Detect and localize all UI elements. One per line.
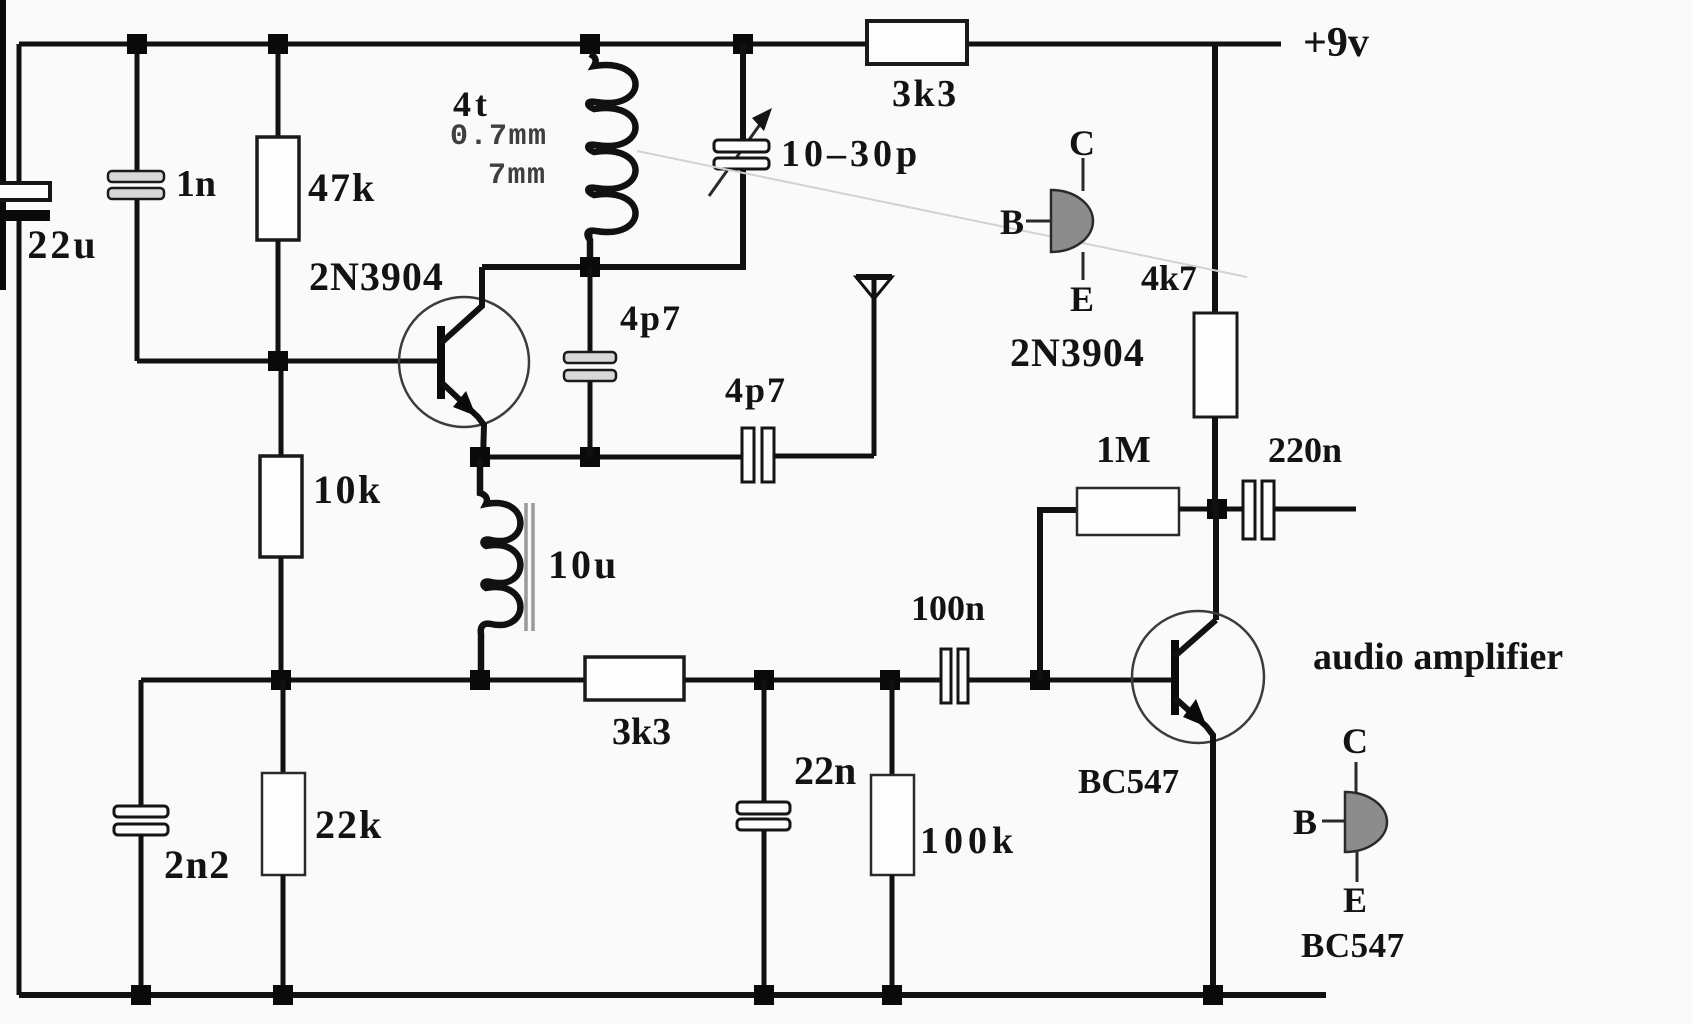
capacitor 10-30p top plate xyxy=(714,140,769,152)
wire 47k bottom to base junction xyxy=(276,240,281,361)
svg-text:22u: 22u xyxy=(27,222,98,267)
node junction emitter at Q1 xyxy=(470,447,490,467)
wire 1n bottom to base row xyxy=(135,199,140,361)
svg-text:22n: 22n xyxy=(794,748,856,793)
wire 1M right lead xyxy=(1179,507,1227,512)
wire riser to 1M xyxy=(1040,510,1077,680)
node junction emitter at 4p7 xyxy=(580,447,600,467)
transistor Q1 emitter lead xyxy=(441,382,484,460)
transistor package BC547 collector pin xyxy=(1355,762,1358,793)
transistor package 2N3904 body xyxy=(1051,190,1093,252)
node junction top rail at 1n xyxy=(127,34,147,54)
svg-text:10k: 10k xyxy=(313,467,383,512)
svg-text:4p7: 4p7 xyxy=(725,370,787,410)
resistor 3k3 top xyxy=(867,21,967,64)
transistor package 2N3904 emitter pin xyxy=(1082,252,1085,280)
node junction ground at 2n2 xyxy=(131,985,151,1005)
transistor Q1 base bar xyxy=(437,326,445,399)
capacitor 10-30p arrow tail xyxy=(709,116,766,196)
svg-text:2N3904: 2N3904 xyxy=(1010,330,1145,375)
wire ground rail xyxy=(19,992,1326,998)
wire right rail top xyxy=(1212,44,1218,313)
capacitor 10-30p arrow head xyxy=(752,108,772,131)
svg-text:C: C xyxy=(1342,721,1368,761)
transistor package 2N3904 collector pin xyxy=(1082,158,1085,191)
wire 2n2 branch xyxy=(139,680,144,806)
svg-text:2N3904: 2N3904 xyxy=(309,254,444,299)
svg-text:7mm: 7mm xyxy=(488,159,547,193)
node junction mid row at 10u xyxy=(470,670,490,690)
wire 100k top stem xyxy=(890,680,895,775)
capacitor 4p7 coupling left plate xyxy=(742,428,754,482)
node junction top rail at 47k xyxy=(268,34,288,54)
wire 4p7 coupling to antenna xyxy=(774,454,874,459)
wire 100k bottom stem xyxy=(890,875,895,995)
transistor package 2N3904 base pin xyxy=(1026,220,1051,223)
resistor 4k7 xyxy=(1194,313,1237,417)
inductor 10u core line 1 xyxy=(524,503,528,631)
capacitor 1n top plate xyxy=(108,171,164,182)
svg-text:10u: 10u xyxy=(548,542,619,587)
wire 2n2 bottom stem xyxy=(139,835,144,995)
wire 10k bottom to mid row xyxy=(279,557,284,680)
wire 4p7 cap1 bottom stem xyxy=(588,381,593,457)
wire 47k top stem xyxy=(276,44,281,137)
svg-text:4p7: 4p7 xyxy=(620,298,682,338)
transistor Q2 BC547 circle xyxy=(1132,611,1264,743)
capacitor 100n left plate xyxy=(941,649,951,703)
wire 10-30p top stem xyxy=(740,44,746,141)
wire 4k7 bottom to junction xyxy=(1212,417,1218,509)
wire 22k bottom stem xyxy=(281,875,286,995)
svg-text:47k: 47k xyxy=(308,165,376,210)
wire coil bottom to collector row xyxy=(588,232,593,267)
transistor package BC547 base pin xyxy=(1322,820,1345,823)
svg-text:3k3: 3k3 xyxy=(892,73,959,115)
wire base row horizontal xyxy=(137,359,437,364)
wire left vertical from top rail to 22u xyxy=(17,44,22,183)
wire 220n left lead xyxy=(1227,507,1244,512)
transistor package BC547 emitter pin xyxy=(1356,852,1359,882)
capacitor 220n right plate xyxy=(1262,481,1274,539)
svg-text:B: B xyxy=(1293,802,1317,842)
svg-text:audio amplifier: audio amplifier xyxy=(1313,636,1563,678)
svg-text:B: B xyxy=(1000,202,1024,242)
node junction top rail at 10-30p xyxy=(733,34,753,54)
svg-text:BC547: BC547 xyxy=(1078,762,1179,801)
svg-text:C: C xyxy=(1069,123,1095,163)
transistor Q2 base bar xyxy=(1171,640,1179,715)
svg-text:0.7mm: 0.7mm xyxy=(450,120,548,154)
wire 22k top stem xyxy=(281,680,286,773)
svg-text:100n: 100n xyxy=(911,588,985,628)
resistor 100k xyxy=(871,775,914,875)
node junction ground at 22n xyxy=(754,985,774,1005)
svg-text:3k3: 3k3 xyxy=(612,711,671,753)
node junction ground at Q2 emitter xyxy=(1203,985,1223,1005)
wire mid row right part xyxy=(968,678,1171,683)
inductor 10u coil xyxy=(480,458,520,680)
capacitor 4p7 top plate xyxy=(564,352,616,363)
node junction mid row at 100k xyxy=(880,670,900,690)
wire 22u bottom to ground rail xyxy=(17,221,22,995)
capacitor 220n left plate xyxy=(1243,481,1255,539)
svg-text:E: E xyxy=(1343,880,1367,920)
svg-text:2n2: 2n2 xyxy=(164,842,231,887)
left image-edge black bar xyxy=(0,0,6,290)
node junction base row xyxy=(268,351,288,371)
capacitor 22u top plate xyxy=(0,183,50,200)
transistor package BC547 body xyxy=(1345,792,1387,852)
antenna top bar xyxy=(856,274,892,280)
wire mid row left part xyxy=(141,678,941,683)
capacitor 22n bottom plate xyxy=(737,819,790,830)
transistor Q2 emitter lead xyxy=(1175,698,1213,995)
wire top +9v rail xyxy=(19,42,1281,47)
svg-text:E: E xyxy=(1070,279,1094,319)
node junction collector net xyxy=(1207,499,1227,519)
antenna triangle xyxy=(856,277,892,299)
capacitor 4p7 coupling right plate xyxy=(762,428,774,482)
antenna mast xyxy=(872,276,877,456)
resistor 3k3 mid xyxy=(585,657,684,700)
svg-text:+9v: +9v xyxy=(1303,20,1369,66)
node junction ground at 22k xyxy=(273,985,293,1005)
capacitor 22u bottom plate xyxy=(0,210,50,221)
svg-text:22k: 22k xyxy=(315,802,383,847)
resistor 47k xyxy=(257,137,299,240)
wire emitter row xyxy=(480,455,742,460)
wire base junction down to 10k xyxy=(279,361,284,456)
capacitor 2n2 bottom plate xyxy=(114,824,168,835)
wire 10-30p bottom stem xyxy=(482,168,743,267)
transistor Q1 emitter arrow xyxy=(453,391,476,416)
svg-text:4t: 4t xyxy=(453,84,491,124)
node junction ground at 100k xyxy=(882,985,902,1005)
resistor 10k xyxy=(260,456,302,557)
node junction mid row at 22n xyxy=(754,670,774,690)
transistor Q2 emitter arrow xyxy=(1183,699,1207,727)
wire 4p7 cap1 top stem xyxy=(588,267,593,353)
resistor 22k xyxy=(262,773,305,875)
transistor Q2 collector lead xyxy=(1175,620,1216,656)
capacitor 100n right plate xyxy=(958,649,968,703)
node junction mid row at 10k xyxy=(271,670,291,690)
wire 1n top stem xyxy=(135,44,140,172)
wire 220n output xyxy=(1274,507,1356,512)
svg-text:220n: 220n xyxy=(1268,430,1342,470)
capacitor 1n bottom plate xyxy=(108,188,164,199)
node junction mid row at 1M riser xyxy=(1030,670,1050,690)
capacitor 2n2 top plate xyxy=(114,806,168,817)
svg-text:1n: 1n xyxy=(176,163,216,205)
resistor 1M xyxy=(1077,488,1179,535)
node junction top rail at coil xyxy=(580,34,600,54)
svg-text:100k: 100k xyxy=(920,820,1018,862)
node junction collector row at coil xyxy=(580,257,600,277)
capacitor 4p7 bottom plate xyxy=(564,370,616,381)
transistor Q1 collector lead xyxy=(441,267,482,343)
capacitor 22n top plate xyxy=(737,802,790,814)
svg-text:BC547: BC547 xyxy=(1301,926,1405,965)
svg-text:10–30p: 10–30p xyxy=(781,133,921,175)
wire 22n top stem xyxy=(762,680,767,802)
wire 22n bottom stem xyxy=(762,830,767,995)
capacitor 10-30p bottom plate xyxy=(714,158,769,169)
transistor Q1 2N3904 circle xyxy=(399,297,529,427)
inductor 10u core line 2 xyxy=(531,503,535,631)
inductor 4t coil xyxy=(588,54,636,258)
faint diagonal scratch line xyxy=(637,151,1247,277)
wire junction down to Q2 collector xyxy=(1213,509,1219,620)
svg-text:1M: 1M xyxy=(1096,429,1151,471)
